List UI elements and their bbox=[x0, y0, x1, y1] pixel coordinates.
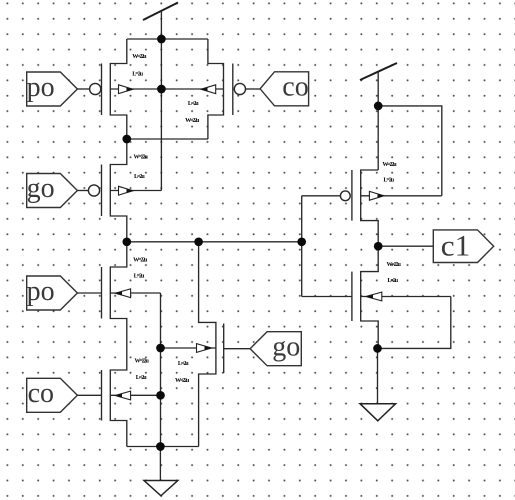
svg-text:W=22u: W=22u bbox=[133, 258, 148, 264]
svg-text:L=2u: L=2u bbox=[383, 178, 394, 184]
svg-text:L=2u: L=2u bbox=[188, 101, 199, 107]
svg-text:co: co bbox=[282, 72, 308, 103]
svg-text:W=22u: W=22u bbox=[175, 378, 190, 384]
svg-text:W=22u: W=22u bbox=[185, 118, 200, 124]
svg-text:co: co bbox=[28, 378, 54, 409]
svg-text:po: po bbox=[27, 276, 55, 307]
svg-text:W=22u: W=22u bbox=[387, 262, 402, 268]
svg-text:L=2u: L=2u bbox=[178, 361, 189, 367]
svg-text:W=22u: W=22u bbox=[135, 359, 150, 365]
svg-text:L=2u: L=2u bbox=[132, 72, 143, 78]
svg-text:go: go bbox=[27, 173, 55, 204]
svg-text:L=2u: L=2u bbox=[387, 278, 398, 284]
svg-text:L=2u: L=2u bbox=[134, 274, 145, 280]
svg-text:po: po bbox=[27, 72, 55, 103]
svg-text:L=2u: L=2u bbox=[134, 174, 145, 180]
svg-text:W=22u: W=22u bbox=[132, 54, 147, 60]
svg-text:W=22u: W=22u bbox=[382, 162, 397, 168]
svg-text:c1: c1 bbox=[441, 229, 471, 262]
svg-text:W=22u: W=22u bbox=[134, 155, 149, 161]
svg-text:L=2u: L=2u bbox=[136, 375, 147, 381]
svg-text:go: go bbox=[272, 332, 300, 363]
